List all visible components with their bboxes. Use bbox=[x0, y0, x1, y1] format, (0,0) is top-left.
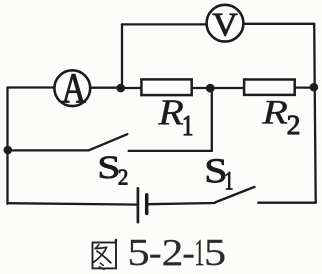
wire node D to switch S2 bbox=[8, 149, 89, 151]
voltmeter V1 bbox=[207, 5, 244, 42]
wire ammeter row left bbox=[8, 86, 54, 88]
wire R2 to node C bbox=[296, 86, 314, 88]
wire battery to switch S1 bbox=[148, 203, 214, 204]
battery long plate bbox=[137, 188, 140, 222]
resistor label R2 bbox=[262, 101, 287, 124]
switch label S2 bbox=[100, 157, 118, 179]
caption digit 1 bbox=[196, 240, 203, 265]
wire bottom left to battery bbox=[7, 203, 137, 204]
caption hyphen bbox=[150, 255, 160, 258]
switch label S2 subscript 2 bbox=[119, 170, 127, 185]
node C junction dot bbox=[310, 83, 319, 92]
wire node A to R1 bbox=[121, 87, 140, 89]
battery short plate bbox=[145, 195, 149, 214]
caption digit 5 bbox=[130, 240, 148, 265]
wire R1 to node B bbox=[193, 87, 210, 89]
caption digit 5 second bbox=[206, 240, 224, 265]
resistor R2 bbox=[244, 80, 295, 95]
resistor label R2 subscript 2 bbox=[288, 116, 299, 135]
wire riser to node B bbox=[211, 88, 213, 151]
wire left vertical bbox=[6, 88, 8, 204]
caption digit 2 bbox=[164, 240, 181, 265]
caption character tu (drawn) bbox=[93, 240, 117, 270]
wire node B to R2 bbox=[210, 87, 244, 89]
caption hyphen 2 bbox=[184, 255, 194, 258]
switch label S1 bbox=[207, 159, 225, 182]
node D junction dot bbox=[4, 146, 13, 155]
node A junction dot bbox=[116, 84, 125, 93]
wire voltmeter to top right corner bbox=[244, 23, 315, 25]
resistor R1 bbox=[141, 79, 191, 95]
switch S1 blade bbox=[216, 187, 255, 202]
wire top left to voltmeter bbox=[122, 23, 205, 25]
wire switch S2 to riser bbox=[129, 150, 212, 152]
meter label A bbox=[62, 74, 86, 102]
switch label S1 subscript 1 bbox=[226, 172, 232, 189]
meter label V bbox=[213, 14, 238, 36]
ammeter A1 bbox=[54, 70, 90, 106]
wire voltmeter branch vertical bbox=[121, 24, 123, 88]
wire switch S1 to bottom right corner bbox=[258, 202, 316, 204]
wire ammeter to node A bbox=[91, 87, 121, 89]
resistor label R1 bbox=[158, 100, 183, 124]
wire right vertical bbox=[314, 24, 316, 203]
switch S2 blade bbox=[89, 134, 128, 150]
node B junction dot bbox=[206, 84, 215, 93]
resistor label R1 subscript 1 bbox=[184, 116, 192, 135]
